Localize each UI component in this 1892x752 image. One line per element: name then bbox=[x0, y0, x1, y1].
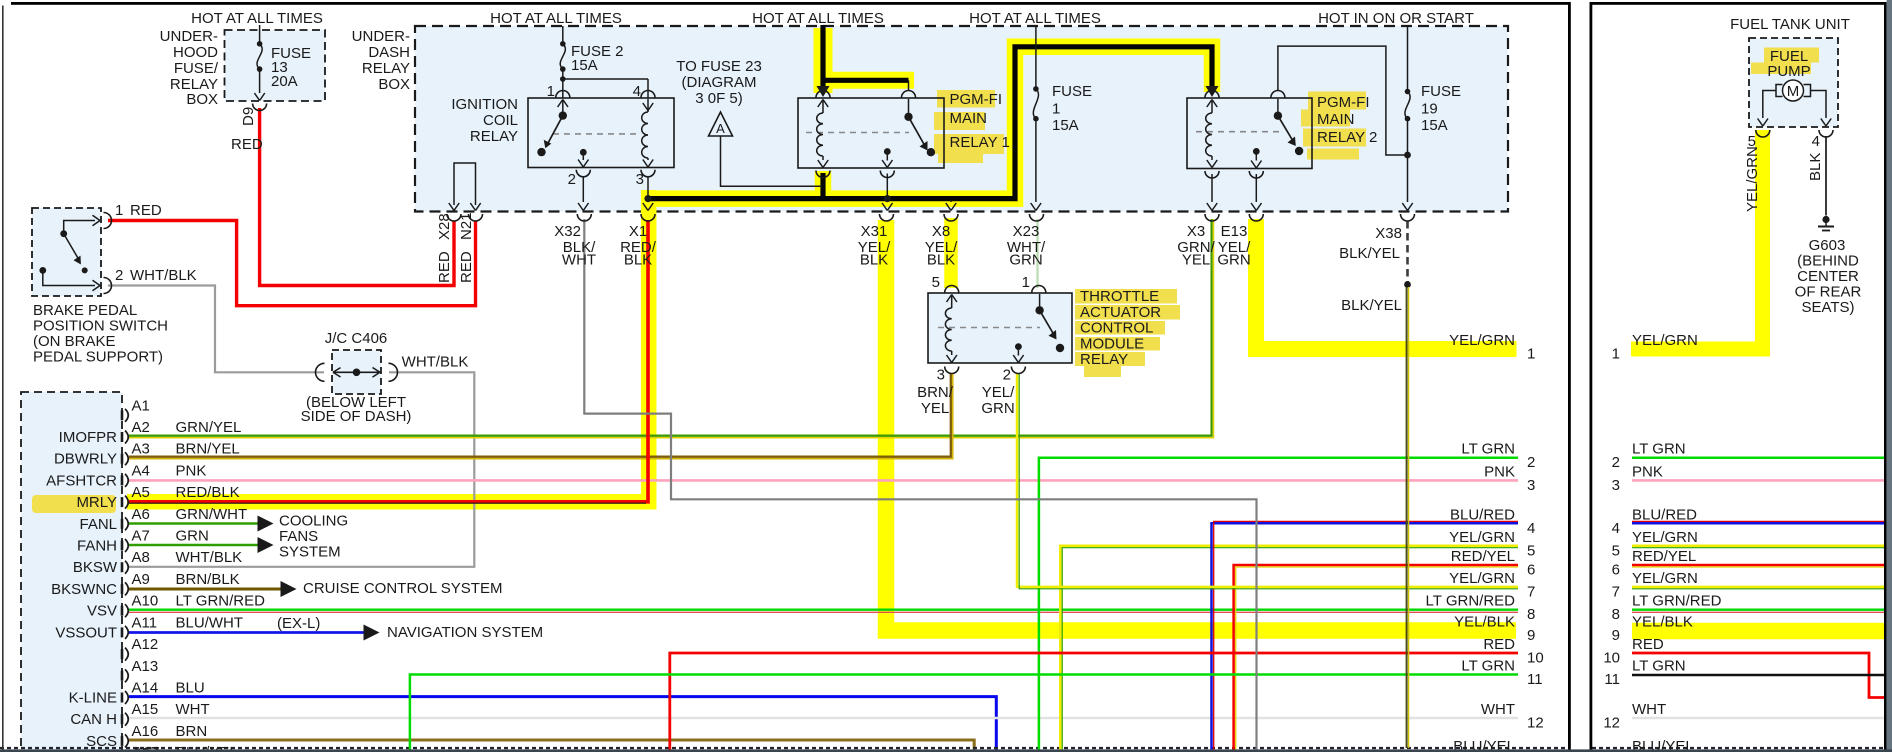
yellow band X1/A5 RED-BLK wire bbox=[127, 190, 649, 502]
label RED N21 (rotated) bbox=[458, 251, 475, 283]
svg-text:4: 4 bbox=[1612, 520, 1620, 537]
label PGM-FI MAIN RELAY 1 bbox=[950, 91, 1010, 151]
label G603 bbox=[1809, 237, 1846, 254]
svg-text:IGNITION: IGNITION bbox=[451, 96, 518, 113]
svg-text:15A: 15A bbox=[571, 57, 598, 74]
wire LT GRN/RED A10 to page exit 8 bbox=[129, 610, 1518, 613]
arrow to cooling fans A7 bbox=[258, 537, 274, 553]
page1 wire exit labels 1-12 bbox=[1426, 332, 1544, 732]
svg-text:HOT AT ALL TIMES: HOT AT ALL TIMES bbox=[752, 10, 884, 27]
svg-text:A6: A6 bbox=[132, 506, 150, 523]
svg-text:SYSTEM: SYSTEM bbox=[279, 544, 341, 561]
svg-text:(ON BRAKE: (ON BRAKE bbox=[33, 333, 116, 350]
svg-text:BLU/RED: BLU/RED bbox=[1632, 506, 1697, 523]
highlight MRLY label bbox=[32, 495, 116, 513]
page2 wire BLK row11 bbox=[1632, 674, 1884, 677]
svg-text:A2: A2 bbox=[132, 419, 150, 436]
svg-text:FUSE: FUSE bbox=[1052, 83, 1092, 100]
svg-text:YEL/: YEL/ bbox=[982, 384, 1015, 401]
junction dot fuse19 wire bbox=[1404, 152, 1411, 159]
svg-text:BLK: BLK bbox=[860, 252, 888, 269]
label FUSE 1 15A bbox=[1052, 83, 1092, 134]
junction dot X38 wire bbox=[1404, 281, 1411, 288]
wire GRN/YEL A2 to X3 bbox=[129, 219, 1214, 438]
label X1 RED/BLK bbox=[620, 223, 657, 269]
page2 wire BLU/RED row4 bbox=[1632, 521, 1884, 523]
page2 wire LT GRN row2 bbox=[1632, 456, 1884, 459]
label 3 TACM pin3 bbox=[937, 367, 945, 384]
svg-text:VSSOUT: VSSOUT bbox=[55, 624, 117, 641]
svg-text:15A: 15A bbox=[1421, 117, 1448, 134]
pin arc relay1 switch pin bbox=[902, 91, 916, 98]
svg-text:HOT AT ALL TIMES: HOT AT ALL TIMES bbox=[969, 10, 1101, 27]
fuse 19 wire bbox=[1402, 26, 1412, 211]
label 2 WHT/BLK bbox=[115, 267, 197, 284]
label X28 (rotated) bbox=[436, 213, 453, 240]
svg-text:BRN/BLK: BRN/BLK bbox=[176, 571, 240, 588]
label FUSE 2 15A bbox=[571, 43, 624, 74]
svg-text:FANH: FANH bbox=[77, 538, 117, 555]
svg-text:BLK/YEL: BLK/YEL bbox=[1339, 245, 1400, 262]
label YEL/GRN rotated page2 bbox=[1744, 146, 1761, 212]
arrow X28 bbox=[449, 203, 459, 211]
svg-text:RED/BLK: RED/BLK bbox=[176, 484, 240, 501]
label CRUISE CONTROL SYSTEM bbox=[303, 580, 502, 597]
label BRN/YEL TACM pin3 bbox=[917, 384, 954, 417]
relay1 output contact bbox=[882, 148, 892, 167]
TACM switch bbox=[1035, 294, 1064, 352]
wire WHT/BLK J/C C406 to A8 bbox=[129, 372, 474, 567]
svg-text:WHT: WHT bbox=[1481, 701, 1515, 718]
label WHT/BLK at J/C bbox=[402, 354, 469, 371]
pin arc relay2 coil out bbox=[1205, 171, 1219, 178]
svg-text:(EX-L): (EX-L) bbox=[277, 615, 320, 632]
svg-text:BLU/RED: BLU/RED bbox=[1450, 506, 1515, 523]
label THROTTLE ACTUATOR CONTROL MODULE RELAY bbox=[1080, 288, 1161, 368]
svg-text:LT GRN: LT GRN bbox=[1632, 658, 1686, 675]
arrow to cooling fans A6 bbox=[258, 516, 274, 532]
svg-text:BLU: BLU bbox=[176, 680, 205, 697]
svg-text:FUSE/: FUSE/ bbox=[174, 60, 219, 77]
svg-text:AFSHTCR: AFSHTCR bbox=[46, 472, 117, 489]
page2 top border bbox=[1590, 2, 1885, 5]
svg-text:A15: A15 bbox=[132, 701, 159, 718]
TACM center dashed line bbox=[938, 327, 1040, 329]
label 2 TACM pin2 bbox=[1003, 367, 1011, 384]
svg-text:GRN: GRN bbox=[1009, 252, 1042, 269]
svg-text:19: 19 bbox=[1421, 101, 1438, 118]
svg-text:LT GRN/RED: LT GRN/RED bbox=[176, 593, 266, 610]
J/C C406 box (dashed) bbox=[332, 350, 381, 394]
wire relay2 coil to X3 bbox=[1207, 174, 1217, 211]
relay center dashed line bbox=[553, 133, 641, 135]
label X3 GRN/YEL bbox=[1177, 223, 1215, 269]
svg-text:ACTUATOR: ACTUATOR bbox=[1080, 304, 1161, 321]
svg-text:RED: RED bbox=[231, 136, 263, 153]
connector pin A6 (FANL) bbox=[79, 506, 247, 533]
highlight PGM-FI relay2 label bbox=[1301, 92, 1366, 160]
horizontal scrollbar bbox=[0, 749, 1892, 752]
pin arc N21 bbox=[469, 214, 483, 221]
wire BRN/BLK A9 to cruise control bbox=[129, 588, 281, 591]
wire triangle to main relay output bbox=[721, 136, 823, 186]
label X38 bbox=[1375, 225, 1402, 242]
svg-text:COIL: COIL bbox=[483, 112, 518, 129]
thick arrow into relay1 coil pin bbox=[817, 86, 830, 97]
page1 left border bbox=[2, 6, 4, 752]
svg-text:M: M bbox=[1787, 83, 1800, 100]
svg-text:RELAY 2: RELAY 2 bbox=[1317, 129, 1377, 146]
jumper X28-N21 inside relay box bbox=[454, 163, 476, 205]
svg-text:HOT AT ALL TIMES: HOT AT ALL TIMES bbox=[490, 10, 622, 27]
wire RED D9 to X28 bbox=[260, 108, 454, 286]
svg-text:10: 10 bbox=[1527, 650, 1544, 667]
svg-text:MRLY: MRLY bbox=[76, 494, 117, 511]
wire PNK A4 to page exit 3 bbox=[129, 479, 1518, 482]
page2 left border bbox=[1590, 2, 1593, 752]
connector pin A8 (BKSW) bbox=[73, 549, 242, 576]
svg-text:RELAY: RELAY bbox=[362, 60, 410, 77]
pin arc relay pin3 bbox=[641, 170, 655, 177]
wire GRN/WHT A6 to cooling fans bbox=[129, 522, 258, 525]
wire YEL/GRN row7 from TACM pin2 bbox=[1017, 374, 1518, 589]
svg-text:9: 9 bbox=[1527, 627, 1535, 644]
svg-text:RED: RED bbox=[458, 251, 475, 283]
fuse 1 symbol bbox=[1033, 86, 1039, 121]
svg-text:BRN: BRN bbox=[176, 723, 208, 740]
pin arc TACM pin1 bbox=[1032, 286, 1046, 293]
label BELOW LEFT SIDE OF DASH bbox=[301, 394, 412, 425]
svg-text:BKSW: BKSW bbox=[73, 559, 118, 576]
svg-text:8: 8 bbox=[1527, 606, 1535, 623]
svg-text:MAIN: MAIN bbox=[950, 110, 988, 127]
pin arc relay2 switch pin bbox=[1271, 91, 1285, 98]
svg-text:DBWRLY: DBWRLY bbox=[54, 451, 117, 468]
label N21 (rotated) bbox=[458, 212, 475, 240]
svg-text:CRUISE CONTROL SYSTEM: CRUISE CONTROL SYSTEM bbox=[303, 580, 502, 597]
pin arc relay pin4 bbox=[641, 91, 655, 98]
yellow band main relay output run bbox=[645, 47, 1212, 199]
wire relay2 output to E13 bbox=[1251, 174, 1261, 211]
relay1 coil bbox=[817, 100, 829, 168]
pin arc TACM pin5 bbox=[945, 286, 959, 293]
svg-text:X31: X31 bbox=[861, 223, 888, 240]
wire RED row10 bbox=[670, 653, 1518, 752]
svg-text:YEL/GRN: YEL/GRN bbox=[1632, 332, 1698, 349]
page2 wire RED/YEL row6 bbox=[1632, 565, 1884, 567]
label X31 YEL/BLK bbox=[858, 223, 891, 269]
svg-text:3: 3 bbox=[937, 367, 945, 384]
fuse 2 symbol bbox=[560, 41, 566, 72]
svg-text:GRN/WHT: GRN/WHT bbox=[176, 506, 248, 523]
connector pin A13 bbox=[122, 658, 158, 683]
pin arc X38 bbox=[1401, 214, 1415, 221]
fuel pump motor symbol bbox=[1776, 80, 1811, 101]
svg-text:BLK: BLK bbox=[1807, 153, 1824, 181]
pin arc E13 bbox=[1249, 214, 1263, 221]
wire BLK/WHT X32 run bbox=[584, 219, 1256, 752]
svg-text:DASH: DASH bbox=[368, 44, 410, 61]
label pin 5 fuel pump bbox=[1748, 133, 1756, 150]
svg-text:10: 10 bbox=[1603, 650, 1620, 667]
relay1 switch bbox=[904, 99, 935, 156]
svg-text:X23: X23 bbox=[1013, 223, 1040, 240]
label 1 RED bbox=[115, 202, 162, 219]
yellow band X31/YEL-BLK wire row9 bbox=[886, 220, 1516, 631]
pin arc brake pin1 bbox=[104, 213, 112, 229]
svg-text:3: 3 bbox=[636, 171, 644, 188]
pin arc TACM pin2 bbox=[1011, 367, 1025, 374]
svg-text:12: 12 bbox=[1527, 715, 1544, 732]
svg-text:A5: A5 bbox=[132, 484, 150, 501]
svg-text:X28: X28 bbox=[436, 213, 453, 240]
svg-text:WHT: WHT bbox=[562, 252, 596, 269]
wire BLU/YEL dashed (page2) bbox=[1592, 747, 1884, 749]
fuse 2 wire bbox=[562, 26, 564, 79]
svg-text:A11: A11 bbox=[132, 614, 158, 631]
pin arc relay1 output bbox=[880, 171, 894, 178]
pin arc relay pin1 bbox=[556, 91, 570, 98]
fuel pump wires to pins bbox=[1758, 91, 1832, 127]
wire relay2 switch to fuse19 bbox=[1278, 46, 1405, 155]
wire BLU/RED row4 bbox=[1212, 521, 1519, 752]
svg-text:BRN/: BRN/ bbox=[917, 384, 954, 401]
relay2 output contact bbox=[1251, 148, 1261, 168]
label PGM-FI MAIN RELAY 2 bbox=[1317, 94, 1377, 146]
label BLK rotated page2 bbox=[1807, 153, 1824, 181]
svg-text:J/C C406: J/C C406 bbox=[325, 330, 388, 347]
junction dot fuse2 bbox=[560, 76, 566, 82]
wire WHT/GRN X23 to TACM pin1 bbox=[1036, 219, 1038, 288]
label BEHIND CENTER OF REAR SEATS bbox=[1795, 253, 1862, 317]
svg-text:20A: 20A bbox=[271, 73, 298, 90]
wire RED/BLK A5 to X1 bbox=[129, 220, 648, 503]
brake switch pin2 internal bbox=[39, 267, 100, 291]
pin arc relay pin2 bbox=[576, 170, 590, 177]
label BRAKE PEDAL POSITION SWITCH bbox=[33, 302, 168, 366]
svg-text:CONTROL: CONTROL bbox=[1080, 320, 1153, 337]
svg-text:(BEHIND: (BEHIND bbox=[1797, 253, 1859, 270]
svg-text:D9: D9 bbox=[240, 107, 257, 126]
label X32 BLK/WHT bbox=[554, 223, 596, 269]
svg-text:WHT/BLK: WHT/BLK bbox=[402, 354, 469, 371]
svg-text:2: 2 bbox=[115, 267, 123, 284]
relay1 center dashed line bbox=[806, 132, 909, 134]
wire BRN A16 down bbox=[129, 740, 974, 752]
label pin 4 bbox=[633, 83, 641, 100]
wire RED brake pedal pin1 to N21 bbox=[108, 221, 476, 306]
connector pin A10 (VSV) bbox=[87, 593, 265, 620]
svg-text:11: 11 bbox=[1527, 671, 1543, 688]
svg-text:RED/YEL: RED/YEL bbox=[1451, 548, 1515, 565]
under-dash relay box (dashed) bbox=[415, 26, 1508, 212]
page2 wire PNK row3 bbox=[1632, 479, 1884, 482]
svg-text:PGM-FI: PGM-FI bbox=[950, 91, 1003, 108]
page2 wire WHT row12 bbox=[1632, 717, 1884, 719]
svg-text:A12: A12 bbox=[132, 636, 159, 653]
pin arc X3 bbox=[1205, 214, 1219, 221]
pin arc X31 bbox=[880, 214, 894, 221]
svg-text:A14: A14 bbox=[132, 680, 159, 697]
pin arc X32 bbox=[577, 214, 591, 221]
label HOT AT ALL TIMES (fuse2) bbox=[490, 10, 622, 27]
wire BLK/YEL X38 dashed part bbox=[1406, 221, 1409, 282]
label UNDER-DASH RELAY BOX bbox=[352, 28, 410, 93]
svg-text:3: 3 bbox=[1527, 477, 1535, 494]
pin arc relay1 coil out bbox=[816, 171, 830, 178]
connector pin A16 (SCS) bbox=[86, 723, 207, 750]
highlight TACM relay label bbox=[1075, 289, 1180, 377]
svg-text:YEL/GRN: YEL/GRN bbox=[1449, 529, 1515, 546]
pin arc fuel pump pin4 bbox=[1819, 130, 1833, 137]
label FUSE 19 15A bbox=[1421, 83, 1461, 134]
svg-text:A9: A9 bbox=[132, 571, 150, 588]
svg-text:FUSE: FUSE bbox=[1421, 83, 1461, 100]
svg-text:IMOFPR: IMOFPR bbox=[59, 429, 117, 446]
svg-text:X32: X32 bbox=[554, 223, 581, 240]
thick main relay output wire bbox=[648, 47, 1212, 199]
svg-text:A: A bbox=[716, 121, 725, 136]
yellow band page2 row1 YEL/GRN wire bbox=[1631, 130, 1763, 349]
svg-text:YEL: YEL bbox=[1182, 252, 1210, 269]
svg-text:MODULE: MODULE bbox=[1080, 336, 1144, 353]
svg-text:SEATS): SEATS) bbox=[1801, 299, 1854, 316]
svg-text:X1: X1 bbox=[629, 223, 647, 240]
svg-text:2: 2 bbox=[1003, 367, 1011, 384]
svg-text:X38: X38 bbox=[1375, 225, 1402, 242]
svg-text:BLK/YEL: BLK/YEL bbox=[1341, 297, 1402, 314]
label BLK/YEL upper bbox=[1339, 245, 1400, 262]
svg-text:5: 5 bbox=[1527, 542, 1535, 559]
ground symbol G603 bbox=[1818, 216, 1834, 231]
TACM output contact bbox=[1013, 343, 1023, 362]
svg-text:PGM-FI: PGM-FI bbox=[1317, 94, 1370, 111]
svg-text:SIDE OF DASH): SIDE OF DASH) bbox=[301, 408, 412, 425]
svg-text:PNK: PNK bbox=[1484, 463, 1515, 480]
label FUEL TANK UNIT bbox=[1730, 16, 1850, 33]
under-hood fuse/relay box (dashed) bbox=[225, 30, 326, 101]
TACM coil bbox=[945, 295, 957, 363]
label BLU/YEL A17 (page1 left) bbox=[176, 744, 238, 752]
wire WHT A15 to page exit 12 bbox=[129, 717, 1518, 719]
label pin 1 bbox=[547, 83, 555, 100]
wire BLU A14 down bbox=[129, 697, 996, 752]
svg-text:4: 4 bbox=[1812, 133, 1820, 150]
svg-text:7: 7 bbox=[1527, 583, 1535, 600]
svg-text:N21: N21 bbox=[458, 212, 475, 240]
pin arc X8 bbox=[944, 214, 958, 221]
svg-text:A1: A1 bbox=[132, 397, 150, 414]
svg-text:CAN H: CAN H bbox=[70, 711, 117, 728]
svg-text:2: 2 bbox=[1612, 454, 1620, 471]
svg-text:BLK: BLK bbox=[624, 252, 652, 269]
svg-text:UNDER-: UNDER- bbox=[160, 28, 218, 45]
svg-text:WHT/BLK: WHT/BLK bbox=[130, 267, 197, 284]
label X23 WHT/GRN bbox=[1007, 223, 1046, 269]
page2 right border bbox=[1884, 2, 1887, 752]
connector pin A3 (DBWRLY) bbox=[54, 441, 240, 468]
page2 wire YEL/GRN row5 bbox=[1632, 546, 1884, 548]
label TO FUSE 23 (DIAGRAM 3 0F 5) bbox=[676, 58, 762, 107]
fuel tank unit box (dashed) bbox=[1749, 38, 1838, 127]
connector pin A12 bbox=[122, 636, 158, 661]
fuse 19 symbol bbox=[1405, 89, 1411, 122]
wire YEL/GRN row5 bbox=[1060, 546, 1518, 752]
connector pin A2 (IMOFPR) bbox=[59, 419, 242, 446]
svg-text:1: 1 bbox=[1052, 101, 1060, 118]
wire WHT/BLK brake pedal pin2 to J/C C406 bbox=[108, 286, 324, 373]
label X8 YEL/BLK bbox=[925, 223, 958, 269]
svg-text:X3: X3 bbox=[1187, 223, 1205, 240]
svg-text:FUEL TANK UNIT: FUEL TANK UNIT bbox=[1730, 16, 1850, 33]
svg-text:YEL: YEL bbox=[921, 400, 949, 417]
svg-text:WHT: WHT bbox=[1632, 701, 1666, 718]
label pin 3 bbox=[636, 171, 644, 188]
label J/C C406 bbox=[325, 330, 388, 347]
svg-text:8: 8 bbox=[1612, 606, 1620, 623]
svg-text:HOT IN ON OR START: HOT IN ON OR START bbox=[1318, 10, 1474, 27]
svg-text:1: 1 bbox=[1022, 274, 1030, 291]
arrow fuse13 to D9 bbox=[254, 93, 264, 101]
label FUEL PUMP bbox=[1767, 48, 1810, 80]
triangle A symbol bbox=[709, 112, 733, 136]
highlight FUEL PUMP label bbox=[1751, 48, 1819, 75]
svg-text:YEL/GRN: YEL/GRN bbox=[1744, 146, 1761, 212]
label (EX-L) bbox=[277, 615, 320, 632]
svg-text:YEL/GRN: YEL/GRN bbox=[1632, 570, 1698, 587]
svg-text:4: 4 bbox=[1527, 520, 1535, 537]
svg-text:PNK: PNK bbox=[176, 462, 207, 479]
svg-text:THROTTLE: THROTTLE bbox=[1080, 288, 1159, 305]
pin arc relay2 coil pin bbox=[1205, 91, 1219, 98]
svg-text:BOX: BOX bbox=[186, 91, 218, 108]
connector pin A4 (AFSHTCR) bbox=[46, 462, 206, 489]
label NAVIGATION SYSTEM bbox=[387, 624, 543, 641]
brake switch arm bbox=[64, 234, 88, 274]
svg-text:5: 5 bbox=[932, 274, 940, 291]
svg-text:GRN/YEL: GRN/YEL bbox=[176, 419, 242, 436]
relay2 switch bbox=[1274, 99, 1304, 155]
svg-text:11: 11 bbox=[1604, 671, 1620, 688]
svg-text:OF REAR: OF REAR bbox=[1795, 284, 1862, 301]
svg-text:LT GRN: LT GRN bbox=[1461, 441, 1515, 458]
brake switch pin1 internal bbox=[60, 215, 100, 237]
svg-text:CENTER: CENTER bbox=[1797, 268, 1859, 285]
pin arc X28 bbox=[447, 214, 461, 221]
svg-text:A8: A8 bbox=[132, 549, 150, 566]
wire BLK/YEL X38 solid part bbox=[1407, 287, 1409, 748]
connector pin A14 (K-LINE) bbox=[69, 680, 205, 707]
svg-text:BRN/YEL: BRN/YEL bbox=[176, 441, 240, 458]
svg-text:GRN: GRN bbox=[1217, 252, 1250, 269]
connector pin A1 bbox=[122, 397, 150, 422]
thick branch to relay1 switch pin bbox=[821, 80, 909, 91]
svg-text:PUMP: PUMP bbox=[1767, 63, 1810, 80]
label E13 YEL/GRN bbox=[1217, 223, 1251, 269]
svg-text:GRN: GRN bbox=[176, 528, 209, 545]
label D9 (rotated) bbox=[240, 107, 257, 126]
svg-text:POSITION SWITCH: POSITION SWITCH bbox=[33, 318, 168, 335]
yellow band hot-feed branch bbox=[818, 72, 914, 89]
svg-text:BLK: BLK bbox=[927, 252, 955, 269]
wire GRN A7 to cooling fans bbox=[129, 544, 258, 547]
page1 top border bbox=[11, 2, 1571, 5]
svg-text:3: 3 bbox=[1612, 477, 1620, 494]
svg-text:SCS: SCS bbox=[86, 733, 117, 750]
connector pin A15 (CAN H) bbox=[70, 701, 209, 728]
svg-text:G603: G603 bbox=[1809, 237, 1846, 254]
svg-text:YEL/GRN: YEL/GRN bbox=[1449, 570, 1515, 587]
